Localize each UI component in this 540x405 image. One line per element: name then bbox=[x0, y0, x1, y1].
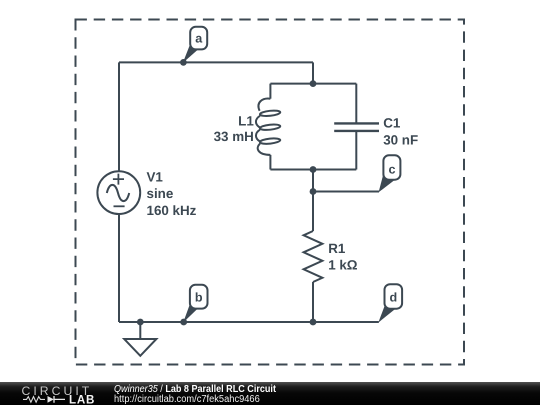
junction dot ground bbox=[137, 319, 144, 326]
wire node c junction to R1 bbox=[312, 192, 314, 232]
CircuitLab logo bbox=[0, 382, 110, 405]
wire R1 to bottom rail bbox=[312, 282, 314, 322]
wire a-drop to LC top rail bbox=[312, 62, 314, 83]
svg-text:160 kHz: 160 kHz bbox=[147, 203, 197, 218]
wire left vertical (a to V1.+) bbox=[118, 62, 120, 171]
node b flag bbox=[183, 285, 207, 323]
ground bbox=[124, 339, 156, 356]
footer title text bbox=[114, 384, 276, 395]
svg-text:V1: V1 bbox=[147, 169, 164, 184]
wire top: node a horizontal bbox=[119, 61, 313, 63]
label L1 value bbox=[214, 113, 255, 144]
capacitor C1 bbox=[334, 84, 379, 170]
svg-text:sine: sine bbox=[147, 186, 174, 201]
dashed boundary box bbox=[76, 20, 465, 365]
svg-text:1 kΩ: 1 kΩ bbox=[328, 258, 358, 273]
svg-text:b: b bbox=[195, 291, 203, 305]
wire bottom rail bbox=[119, 321, 379, 323]
svg-text:L1: L1 bbox=[238, 113, 254, 128]
wire node c horizontal stub bbox=[313, 191, 379, 193]
junction dot node c bbox=[310, 188, 317, 195]
junction dot node a bbox=[180, 59, 187, 66]
node c flag bbox=[379, 155, 401, 192]
node a flag bbox=[183, 27, 207, 63]
wire LC top rail bbox=[270, 83, 356, 85]
svg-text:33 mH: 33 mH bbox=[214, 129, 254, 144]
label V1 value bbox=[147, 169, 197, 218]
label C1 value bbox=[383, 116, 418, 148]
svg-text:a: a bbox=[195, 32, 203, 46]
voltage source V1 bbox=[97, 171, 140, 214]
wire LC bottom rail bbox=[270, 169, 356, 171]
junction dot node b bbox=[180, 319, 187, 326]
node d flag bbox=[378, 284, 402, 322]
label R1 value bbox=[328, 241, 358, 273]
footer bar bbox=[0, 382, 540, 405]
junction dot R1 bottom bbox=[310, 319, 317, 326]
svg-text:R1: R1 bbox=[328, 241, 346, 256]
junction dot LC bottom bbox=[310, 166, 317, 173]
resistor R1 bbox=[304, 231, 323, 282]
footer url text bbox=[114, 394, 260, 405]
inductor L1 bbox=[256, 84, 281, 170]
svg-text:C1: C1 bbox=[383, 116, 401, 131]
wire LC bottom to node c junction bbox=[312, 170, 314, 192]
wire ground stub bbox=[139, 322, 141, 339]
svg-text:LAB: LAB bbox=[69, 393, 95, 405]
junction dot LC top bbox=[310, 80, 317, 87]
svg-text:d: d bbox=[389, 291, 397, 305]
wire V1.- to bottom rail bbox=[118, 214, 120, 322]
svg-text:c: c bbox=[388, 162, 395, 176]
svg-text:30 nF: 30 nF bbox=[383, 132, 418, 147]
